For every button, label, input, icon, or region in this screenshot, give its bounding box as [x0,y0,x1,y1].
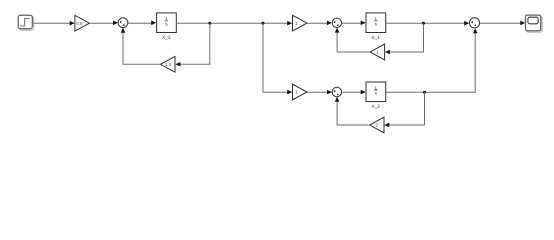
arrowhead into sum S2 [327,21,332,26]
wire final sum S3 to scope [480,22,521,24]
node X_3 feedback tap [208,22,211,25]
wire X_1 feedback drop [390,23,424,52]
step source block [18,15,34,30]
feedback gain 1 in X_1 loop [370,44,385,60]
arrowhead into sum S4 [327,90,332,95]
wire sum S1 to integrator X_3 [128,22,152,24]
arrowhead into integrator X_2 [361,90,366,95]
arrowhead into final sum S3 [464,21,469,26]
arrowhead into integrator X_1 [361,21,366,26]
feedback gain 2 in X_2 loop [370,117,385,133]
wire feedback 1.5 to sum S1 bottom [123,32,161,64]
scope sink block [526,15,543,32]
gain K2 value 1 upper path [293,15,308,31]
arrowhead up into sum S1 [121,28,126,33]
integrator X_1 (1/s) [366,13,386,41]
wire integrator X_2 output rising to final sum S3 bottom [386,33,475,92]
svg-text:X_3: X_3 [162,35,171,41]
integrator X_3 (1/s) [157,13,177,41]
arrowhead into feedback gain 2 [384,123,389,128]
integrator X_2 (1/s) [366,82,386,110]
feedback gain 1.5 [161,56,176,72]
arrowhead into integrator X_3 [151,21,156,26]
arrowhead into gain 1 lower [287,90,292,95]
arrowhead into gain 1 upper [287,21,292,26]
arrowhead into sum S1 [113,21,118,26]
wire branch drop to gain 1 lower [263,23,288,92]
wire gain 1 lower to sum S4 [307,91,327,93]
wire gain 1 upper to sum S2 [307,22,327,24]
svg-text:1.5: 1.5 [165,62,172,67]
node X_1 feedback tap [422,22,425,25]
wire feedback 2 to sum S4 bottom [337,102,369,126]
wire feedback 1 to sum S2 bottom [337,32,370,52]
wire sum S4 to integrator X_2 [342,91,361,93]
svg-text:X_1: X_1 [371,35,380,41]
sum junction S2 [332,18,341,27]
wire sum S2 to integrator X_1 [342,22,361,24]
wire step to gain 0.5 [32,22,70,24]
wire X_2 feedback drop [389,92,425,125]
arrowhead up into sum S2 [335,28,340,33]
svg-text:0.5: 0.5 [77,21,84,26]
sum junction S4 [332,87,341,96]
wire integrator X_3 output to gain 1 upper [176,22,287,24]
wire integrator X_1 output to final sum S3 [386,22,465,24]
node X_2 feedback tap [423,91,426,94]
final sum junction S3 [469,18,479,28]
arrowhead into gain 0.5 [70,21,75,26]
node branch to lower path [262,22,265,25]
wire gain 0.5 to sum S1 [89,22,113,24]
arrowhead up into final sum S3 [473,28,478,33]
arrowhead into scope [520,21,525,26]
wire X_3 feedback drop [180,23,210,64]
arrowhead into feedback gain 1.5 [175,62,180,67]
svg-text:X_2: X_2 [371,104,380,110]
sum junction S1 [118,18,128,28]
gain K1 value 0.5 [75,15,90,31]
arrowhead into feedback gain 1 [385,50,390,55]
gain K3 value 1 lower path [293,84,308,100]
arrowhead up into sum S4 [335,97,340,102]
